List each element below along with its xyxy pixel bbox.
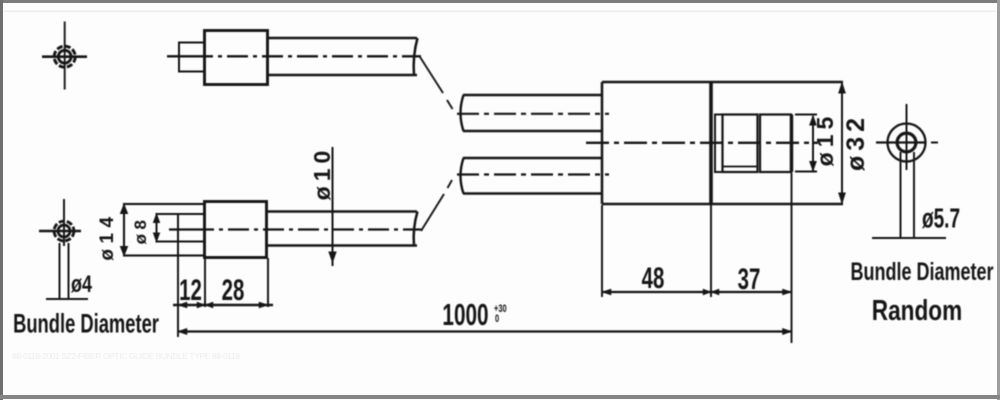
svg-text:ø32: ø32 <box>842 113 870 171</box>
svg-text:Bundle Diameter: Bundle Diameter <box>851 257 994 286</box>
svg-text:88-0118-2001 SZ2-FIBER OPTIC G: 88-0118-2001 SZ2-FIBER OPTIC GUIDE BUNDL… <box>12 351 240 361</box>
svg-text:ø14: ø14 <box>97 211 118 260</box>
svg-text:Bundle Diameter: Bundle Diameter <box>13 308 159 338</box>
svg-text:ø10: ø10 <box>309 146 335 201</box>
svg-text:ø4: ø4 <box>71 272 92 298</box>
svg-text:12: 12 <box>179 274 202 307</box>
svg-text:0: 0 <box>495 311 499 324</box>
svg-text:ø15: ø15 <box>812 112 838 167</box>
svg-text:48: 48 <box>642 262 665 295</box>
svg-text:37: 37 <box>738 263 761 296</box>
svg-text:1000: 1000 <box>442 297 488 332</box>
svg-text:ø5.7: ø5.7 <box>922 203 960 235</box>
svg-text:ø8: ø8 <box>131 216 150 245</box>
svg-text:Random: Random <box>872 293 962 326</box>
svg-text:28: 28 <box>222 274 245 307</box>
